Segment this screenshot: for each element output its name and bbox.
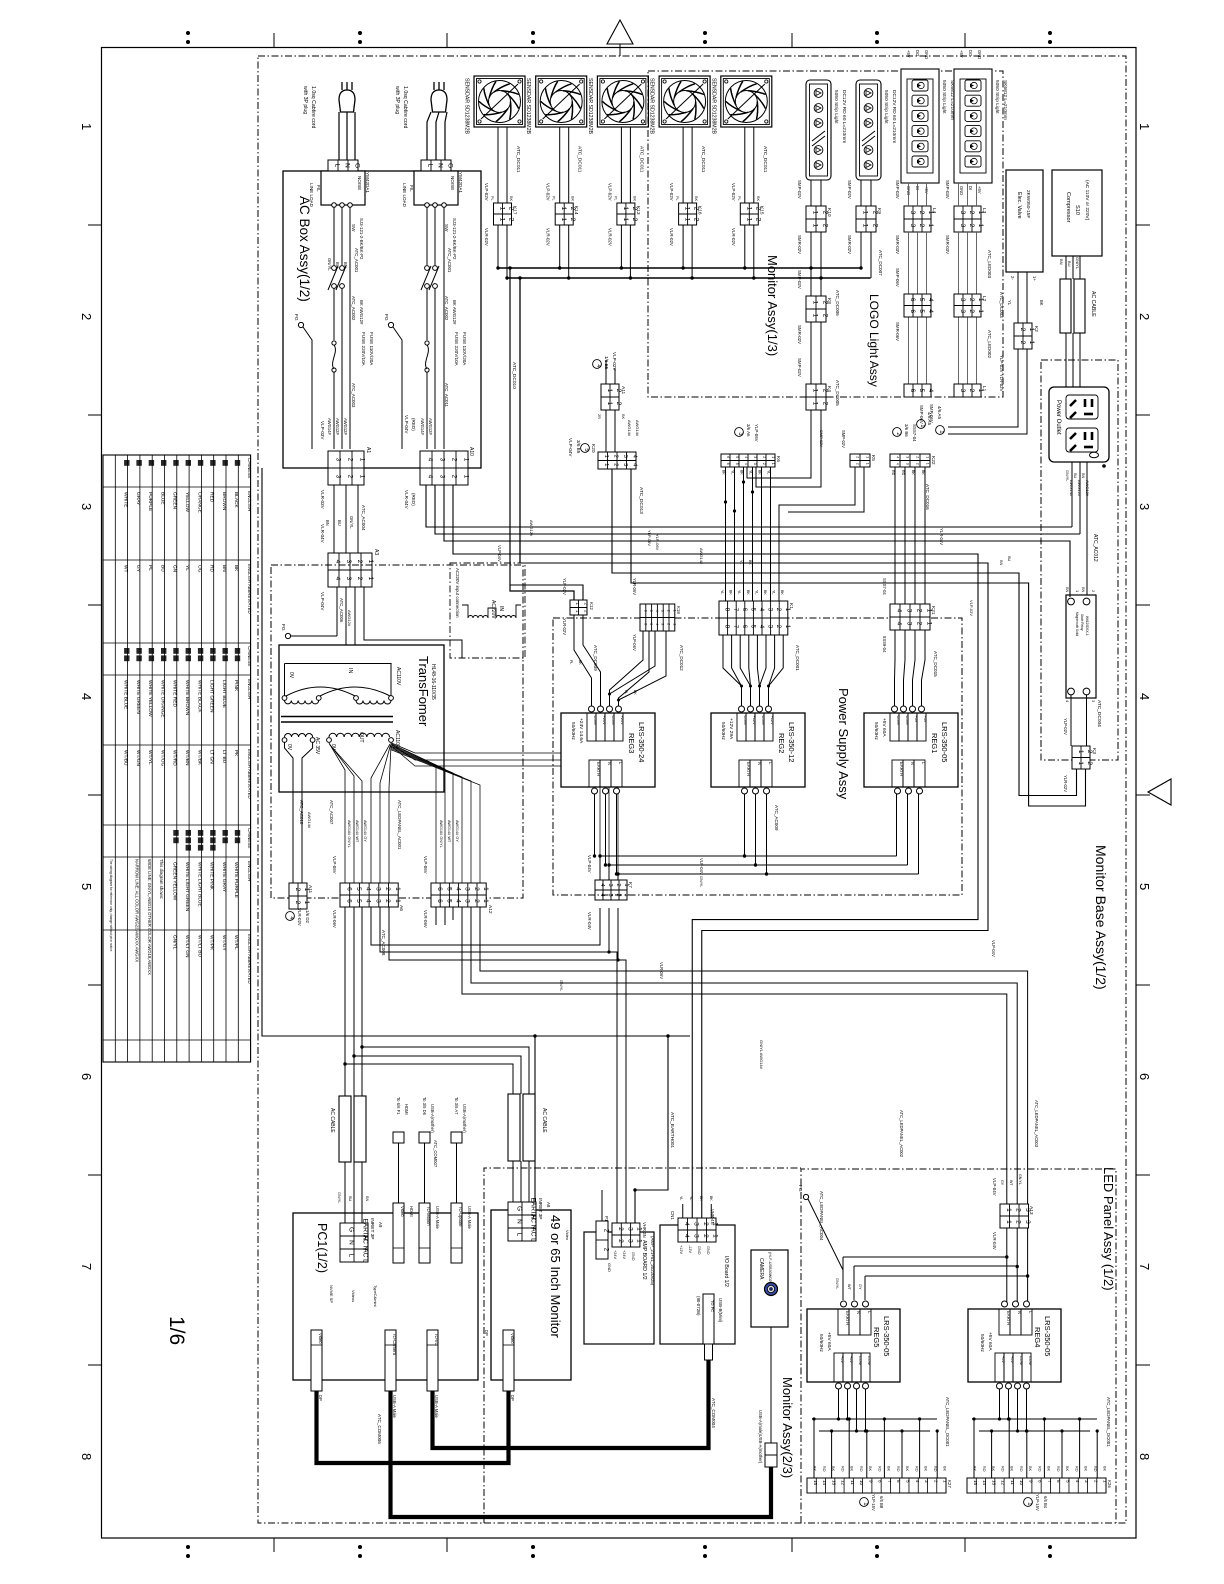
svg-text:1: 1 [1137,123,1152,130]
cooling fan 3 SENSDAR SD1238M2B [597,76,648,127]
switch pole [425,266,430,271]
transformer core [281,716,393,718]
svg-text:Video: Video [400,1206,405,1217]
terminal [766,706,772,712]
svg-text:ATC_AC001: ATC_AC001 [354,248,359,273]
svg-text:50/60Hz: 50/60Hz [570,722,576,740]
zone tick left [88,1174,102,1176]
SK6812 LED [912,95,928,106]
svg-text:3: 3 [345,560,352,564]
zone tick left [88,414,102,416]
svg-text:4: 4 [927,298,934,302]
svg-text:VLP-02V: VLP-02V [669,183,674,201]
svg-text:BN: BN [1065,587,1069,593]
data cable [456,1143,458,1203]
svg-text:BK: BK [632,196,636,202]
REG1 AC feed L [896,794,898,856]
LED strip light 1 (5050 DC12V) [806,80,831,180]
svg-text:WT/YL: WT/YL [147,750,153,765]
power supply LRS-350-05 REG4 [968,1309,1061,1382]
terminal [895,788,901,794]
svg-text:To 3/5 D6: To 3/5 D6 [422,1097,427,1116]
svg-text:ATC_DC011: ATC_DC011 [577,146,583,173]
drop to LED connector [901,1431,903,1478]
svg-text:1: 1 [811,402,818,406]
svg-text:6: 6 [436,899,443,903]
svg-text:1: 1 [462,475,469,479]
sheet ref 3/6 B5 [581,444,590,453]
svg-text:Monitor Base Assy(1/2): Monitor Base Assy(1/2) [1093,845,1109,990]
svg-text:State Relay: State Relay [1080,614,1084,631]
K1 to REG2 wire [723,635,742,706]
SK6812 LED [965,110,981,121]
svg-text:7: 7 [887,1480,892,1483]
switch lever [421,266,431,290]
svg-text:1: 1 [861,224,868,228]
svg-text:WT/LT GN: WT/LT GN [184,935,190,958]
svg-text:BN: BN [1059,259,1064,265]
drop to LED connector [1043,1419,1045,1478]
svg-text:2: 2 [612,455,618,458]
svg-text:BU: BU [159,565,165,572]
svg-text:VLR-02V: VLR-02V [607,228,612,246]
svg-text:FUSE 220V/10A: FUSE 220V/10A [454,332,459,367]
svg-text:+5V: +5V [923,716,928,723]
AC cable (compressor) [1060,279,1071,333]
svg-text:IN: IN [498,606,504,611]
svg-text:WT/RD: WT/RD [172,750,178,766]
svg-text:DP: DP [318,1395,323,1401]
connector L4 [904,206,934,232]
svg-text:RD: RD [822,1466,826,1472]
svg-text:BK: BK [868,1466,872,1472]
A1-A3 wire [333,485,335,553]
branch to monitor AC cable a [345,1064,513,1094]
svg-text:YM42DA1: YM42DA1 [365,172,370,193]
drop to LED connector [919,1419,921,1478]
svg-text:SMR-03V: SMR-03V [895,235,900,254]
svg-text:BK: BK [722,470,726,475]
svg-text:2: 2 [384,887,391,891]
plug2 wire L [427,112,431,160]
PC bottom port Video [503,1330,514,1391]
svg-text:BK: BK [694,196,698,202]
svg-text:ATC_LEDPANEL_AC004: ATC_LEDPANEL_AC004 [819,1191,824,1241]
connector A11 [601,384,622,410]
svg-text:1: 1 [394,899,401,903]
svg-text:2: 2 [821,402,828,406]
svg-text:7: 7 [1047,1480,1052,1483]
strip wire [926,183,928,206]
terminal [589,706,595,712]
svg-text:1: 1 [862,1502,868,1505]
svg-text:5: 5 [918,389,925,393]
terminal [919,706,925,712]
edge dot pair top [703,31,707,35]
svg-text:ATC_LED003: ATC_LED003 [987,250,992,278]
PSU AC rail E [618,873,919,875]
switch lever [328,266,338,290]
svg-text:1: 1 [771,463,775,465]
svg-text:LIGHT BLUE: LIGHT BLUE [221,680,227,708]
svg-text:PK: PK [233,750,239,757]
svg-text:4: 4 [454,887,461,891]
primary top rail [285,663,392,665]
L to L2 wire [976,232,978,294]
svg-text:BK: BK [758,470,762,475]
svg-text:DO: DO [968,50,973,57]
terminal [739,706,745,712]
connector K1 [719,601,791,635]
svg-text:DC12V RD 60 L=210mm: DC12V RD 60 L=210mm [841,90,847,143]
fan wire to bus [559,225,561,268]
svg-text:SMR-06V: SMR-06V [895,322,900,341]
svg-text:4: 4 [631,463,637,466]
svg-text:12: 12 [1001,1480,1006,1486]
CN1 stub [682,1204,684,1218]
svg-text:ATC_COM004: ATC_COM004 [711,1398,716,1428]
svg-text:VLR-02V: VLR-02V [669,228,674,246]
svg-text:AWG12#: AWG12# [1077,480,1082,497]
LED panel output connector row [967,1478,1106,1493]
Compressor box [1052,170,1102,256]
svg-text:3/6 B6: 3/6 B6 [904,424,909,437]
svg-text:USB-B(Mini): USB-B(Mini) [718,1298,723,1323]
svg-text:GY: GY [1000,1180,1004,1186]
svg-text:HDMI: HDMI [409,1206,414,1217]
svg-text:PL: PL [490,196,494,201]
drop to LED connector [1008,1419,1010,1478]
svg-text:WT/BN: WT/BN [184,750,190,766]
svg-text:VLP-04V: VLP-04V [992,1178,997,1196]
svg-text:K20: K20 [590,444,596,453]
svg-text:2: 2 [1019,328,1026,332]
connector A10 [420,451,469,485]
svg-text:6: 6 [909,298,916,302]
svg-text:+12V: +12V [679,1245,683,1254]
svg-text:PL: PL [737,196,741,201]
svg-text:1: 1 [606,389,613,393]
svg-text:6/6 B4: 6/6 B4 [1043,1496,1048,1509]
svg-text:USB-A(mother): USB-A(mother) [430,1104,435,1133]
svg-text:BK: BK [233,565,239,572]
svg-text:1: 1 [303,901,310,905]
svg-text:FIL: FIL [409,185,414,192]
drop to LED connector [866,1431,868,1478]
svg-text:1: 1 [498,218,505,222]
sheet ref 4/6 A5 [917,420,926,429]
svg-text:BROWN: BROWN [221,492,227,511]
svg-text:Magnecraft Solid: Magnecraft Solid [1075,612,1079,636]
svg-text:5: 5 [583,448,589,451]
svg-text:BU: BU [348,1196,352,1202]
zone tick top [446,33,448,48]
zone tick right [1136,1174,1150,1176]
switch pole [340,266,345,271]
svg-text:BN: BN [1081,587,1085,593]
LED strip SK6812 no.1 [901,69,939,183]
svg-text:LIGHT GREEN: LIGHT GREEN [209,680,215,713]
outlet wire GN/YL [1071,462,1073,527]
A13 to REG4 wire [1006,1228,1008,1305]
svg-text:3: 3 [905,609,912,613]
zone tick right [1136,604,1150,606]
svg-text:1: 1 [482,899,489,903]
zone tick top [273,33,275,48]
FG node LED panel [803,1194,808,1199]
AC plug with 3P cord [341,82,343,90]
edge dot pair bottom [703,1545,707,1549]
svg-text:K16: K16 [697,206,703,215]
svg-text:HDMI: HDMI [404,1104,409,1115]
svg-text:COM: COM [743,716,748,725]
svg-text:TO-Motion: TO-Motion [426,1206,431,1226]
plug1 wire N [346,112,348,160]
FG wire [290,635,337,637]
transformer out to A6 p3 [371,744,390,883]
AC wire to PC inlet [361,1162,363,1223]
svg-text:4: 4 [1075,1480,1080,1483]
ATC_COM004 I/O thick cable [433,1360,709,1448]
svg-text:3: 3 [374,887,381,891]
svg-text:4: 4 [683,1222,690,1226]
svg-text:GY: GY [858,1284,862,1290]
power supply LRS-350-05 REG1 [864,713,958,787]
svg-text:6: 6 [345,899,352,903]
primary terminal [282,696,287,701]
svg-text:5: 5 [355,887,362,891]
LED +5V bus [812,1418,937,1420]
svg-text:VHR-3N: VHR-3N [642,1222,647,1238]
svg-text:Power Outlet: Power Outlet [1055,400,1061,435]
svg-text:4: 4 [1137,693,1152,700]
monitor AC cable [508,1094,520,1161]
strip slash [862,131,875,141]
strip wire [917,183,919,206]
A11-K20 wire [605,410,607,452]
svg-text:6: 6 [909,309,916,313]
REG2 AC feed [766,794,768,874]
LED [814,89,823,98]
svg-text:2: 2 [666,610,670,612]
svg-text:1: 1 [1005,1220,1012,1224]
svg-text:K21: K21 [930,606,936,615]
svg-text:1: 1 [603,455,609,458]
svg-text:YM42DA1: YM42DA1 [458,172,463,193]
svg-text:YL: YL [739,560,743,564]
switch lever [429,266,439,290]
Monitor Assy(2/3) dash box [484,1168,801,1523]
svg-text:VLR-04V: VLR-04V [320,524,325,544]
connector K18 [640,604,676,631]
terminal [1024,1301,1030,1307]
svg-text:BK: BK [942,1466,946,1472]
svg-text:AC 35V: AC 35V [314,737,320,755]
K22 to K21 wire [894,467,896,604]
svg-text:AWG14#: AWG14# [327,418,332,436]
LED Panel Assy dash box [801,1169,1116,1523]
A6 wire BU down [353,907,355,1096]
svg-text:4: 4 [599,883,605,886]
L2 to L1 wire [967,317,969,384]
noise filter 2 (YM42DA1) [414,171,458,205]
terminal [852,1301,858,1307]
svg-text:VLP-03V: VLP-03V [320,421,325,440]
svg-text:I/O Board 1/2: I/O Board 1/2 [723,1256,729,1287]
strip to connector wire [860,180,862,206]
svg-text:TypeC&mini: TypeC&mini [373,1285,378,1307]
data cable [424,1143,426,1203]
connector A12 [431,883,489,907]
fan wire PL [620,127,622,203]
FG earth wire [808,1199,843,1300]
svg-text:5: 5 [735,456,739,458]
svg-text:RD: RD [896,1466,900,1472]
PC bottom port Video [311,1330,322,1391]
svg-text:BK: BK [813,1466,817,1472]
svg-text:1: 1 [938,430,944,433]
svg-text:2: 2 [79,313,94,320]
svg-text:WT/GN: WT/GN [135,750,141,767]
svg-text:ATC_AC010: ATC_AC010 [299,800,304,825]
svg-text:2: 2 [384,899,391,903]
PC bottom port TO-Camera [385,1330,396,1391]
svg-text:4: 4 [334,577,341,581]
svg-text:BK: BK [1010,1466,1014,1472]
svg-text:K7: K7 [627,882,633,888]
strip slash [812,131,825,141]
connector K6 [721,454,775,467]
svg-text:3: 3 [438,475,445,479]
wire below switch [426,288,428,340]
svg-text:1: 1 [712,1234,719,1238]
svg-text:FUSE 220V/10A: FUSE 220V/10A [361,332,366,367]
svg-text:USB-A Male: USB-A Male [392,1395,397,1418]
svg-text:BK: BK [699,1196,703,1201]
A6 wire GN/YL down to PC AC cable [344,907,346,1096]
fan wire BK [691,127,693,203]
DP video thick cable [317,1391,509,1463]
svg-text:1: 1 [482,887,489,891]
svg-text:4: 4 [655,623,659,625]
svg-text:+5V: +5V [914,716,919,723]
svg-text:ATC_DC006: ATC_DC006 [835,290,840,316]
svg-text:ENGLISH: ENGLISH [247,861,252,881]
FG wire [393,327,402,449]
svg-text:FIL: FIL [316,185,321,192]
svg-text:ATC_DC004: ATC_DC004 [1096,700,1102,727]
svg-text:YLR-06V: YLR-06V [632,578,637,595]
transformer out to A12 [391,750,481,884]
svg-text:2KW050-15F: 2KW050-15F [1025,190,1031,218]
svg-text:BK: BK [1084,1466,1088,1472]
svg-text:+5V 60A: +5V 60A [987,1332,993,1351]
svg-text:PL: PL [624,690,628,694]
svg-text:GN/YL: GN/YL [349,516,354,529]
bus junction [496,266,499,269]
svg-text:1: 1 [394,887,401,891]
svg-text:BK: BK [911,470,915,475]
K2 wire to ref [948,349,1018,427]
K22 to K21 wire [924,467,926,604]
svg-text:COM: COM [896,716,901,725]
earth branch to monitor inlet [534,1036,536,1202]
fan wire BK [506,127,508,203]
svg-text:AWG14#: AWG14# [635,420,640,437]
svg-text:The wiring diagram for referen: The wiring diagram for reference only, c… [109,859,113,952]
svg-text:BK: BK [850,1466,854,1472]
svg-text:YL: YL [1007,300,1012,306]
terminal [845,1383,851,1389]
connector A11 (transformer) [289,883,310,909]
sheet ref 1/6 E5 [593,360,602,369]
sheet ref 3/6 A6 [735,428,744,437]
svg-text:K5: K5 [870,455,876,461]
fuse terminal [332,341,336,345]
svg-text:L: L [333,164,340,168]
primary terminal [389,696,394,701]
svg-text:SMP-02V: SMP-02V [819,430,824,447]
svg-text:BK: BK [763,590,767,595]
svg-text:GREEN YELLOW: GREEN YELLOW [172,862,178,901]
svg-text:BK: BK [509,196,513,202]
PC AC cable [339,1096,351,1162]
SK6812 LED [912,80,928,91]
svg-text:K15: K15 [758,206,764,215]
svg-text:2: 2 [612,463,618,466]
transformer out rail to K7 [392,745,610,881]
input connection coil symbol [468,616,488,619]
svg-text:+5V: +5V [849,1356,854,1363]
svg-text:WHITE PINK: WHITE PINK [209,862,215,891]
svg-text:4: 4 [454,899,461,903]
svg-text:3: 3 [753,463,757,465]
49 or 65 Inch Monitor box [491,1210,571,1380]
svg-text:WT/LT BU: WT/LT BU [196,935,202,957]
svg-text:ATC_LED002: ATC_LED002 [987,330,992,358]
svg-text:4: 4 [895,609,902,613]
svg-text:(90-072B): (90-072B) [696,1296,701,1316]
svg-text:1: 1 [925,463,929,465]
svg-text:VLR-04V: VLR-04V [587,912,592,930]
svg-text:SSS7-04: SSS7-04 [912,424,917,442]
wire color code table [103,455,251,1062]
edge dot pair bottom [358,1545,362,1549]
A12 rail to A13 pin2 (y983) [471,907,1017,1204]
svg-text:2R: 2R [597,414,601,419]
svg-text:WT: WT [123,565,129,573]
fan supply bus VLR [507,277,870,279]
A6 rail to P1 via y952 [380,907,617,1223]
svg-text:3: 3 [374,899,381,903]
strip to connector wire [820,180,822,206]
svg-text:6: 6 [1056,1480,1061,1483]
svg-text:ATC_DC011: ATC_DC011 [638,146,644,173]
AC220V input connection dash box [450,563,525,658]
svg-text:PL: PL [675,196,679,201]
svg-text:BN: BN [221,565,227,572]
svg-text:3: 3 [622,455,628,458]
svg-text:RD: RD [840,1466,844,1472]
svg-text:BK AWG12#: BK AWG12# [452,300,457,325]
compressor lead [1079,256,1081,279]
svg-text:G: G [446,163,453,168]
svg-text:1: 1 [1077,750,1084,754]
svg-text:4: 4 [631,455,637,458]
svg-text:AWG14# WT: AWG14# WT [447,820,451,843]
svg-text:A1: A1 [365,447,371,453]
terminal [1013,1301,1019,1307]
